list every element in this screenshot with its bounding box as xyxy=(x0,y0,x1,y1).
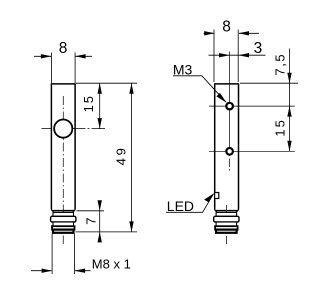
M3 leader line xyxy=(173,76,226,102)
svg-text:15: 15 xyxy=(273,118,288,136)
left dim 15: dimension line with inside arrows xyxy=(99,83,101,128)
svg-text:3: 3 xyxy=(254,40,263,57)
LED leader line xyxy=(166,194,214,213)
right dim 3: dimension line with outside arrows xyxy=(209,54,266,56)
left dim 8: extension lines xyxy=(51,53,75,84)
left view top extension line xyxy=(76,82,137,84)
LED leader arrowhead xyxy=(204,193,214,202)
left view vertical centerline xyxy=(62,96,64,244)
right view hole1 horizontal centerline xyxy=(209,105,295,107)
M8 dim line with outside arrows xyxy=(31,270,91,272)
svg-text:7: 7 xyxy=(84,218,99,225)
right dims 7,5 and 15: dimension line xyxy=(289,49,291,152)
svg-text:M3: M3 xyxy=(173,62,193,78)
left dim 7: dimension line with outside arrows xyxy=(99,201,101,242)
svg-text:15: 15 xyxy=(81,94,96,112)
svg-text:49: 49 xyxy=(114,145,129,165)
left view sensing face circle xyxy=(54,120,72,138)
right dim 8: extension lines xyxy=(214,30,238,83)
M3 hole 1 xyxy=(226,103,233,110)
svg-text:8: 8 xyxy=(59,40,68,57)
right view M8 connector rings xyxy=(214,212,239,232)
right dim 8: dimension line with outside arrows xyxy=(204,32,260,34)
svg-text:8: 8 xyxy=(222,19,231,36)
svg-text:LED: LED xyxy=(167,198,194,214)
right view hole axis vertical centerline xyxy=(229,52,231,157)
left view shoulder extension line xyxy=(77,210,105,212)
left view M8 connector rings xyxy=(51,212,76,232)
right side extension line at body top xyxy=(240,82,298,84)
left view bottom extension line xyxy=(76,231,138,233)
LED window square xyxy=(215,193,219,199)
left view sensor body outline xyxy=(51,83,75,211)
M3 leader arrowhead xyxy=(216,93,226,103)
M3 hole 2 xyxy=(226,148,233,155)
M8 dim extension lines xyxy=(52,234,75,274)
left dim 49: dimension line with inside arrows xyxy=(131,83,133,232)
svg-text:M8 x 1: M8 x 1 xyxy=(92,256,131,271)
svg-text:7,5: 7,5 xyxy=(273,53,288,76)
right view sensor body outline xyxy=(215,83,239,211)
right view hole2 horizontal centerline xyxy=(209,150,295,152)
left dim 8: dimension line with outside arrows xyxy=(34,55,92,57)
right view body lower centerline xyxy=(225,205,227,244)
left view horizontal centerline through circle xyxy=(42,128,106,130)
